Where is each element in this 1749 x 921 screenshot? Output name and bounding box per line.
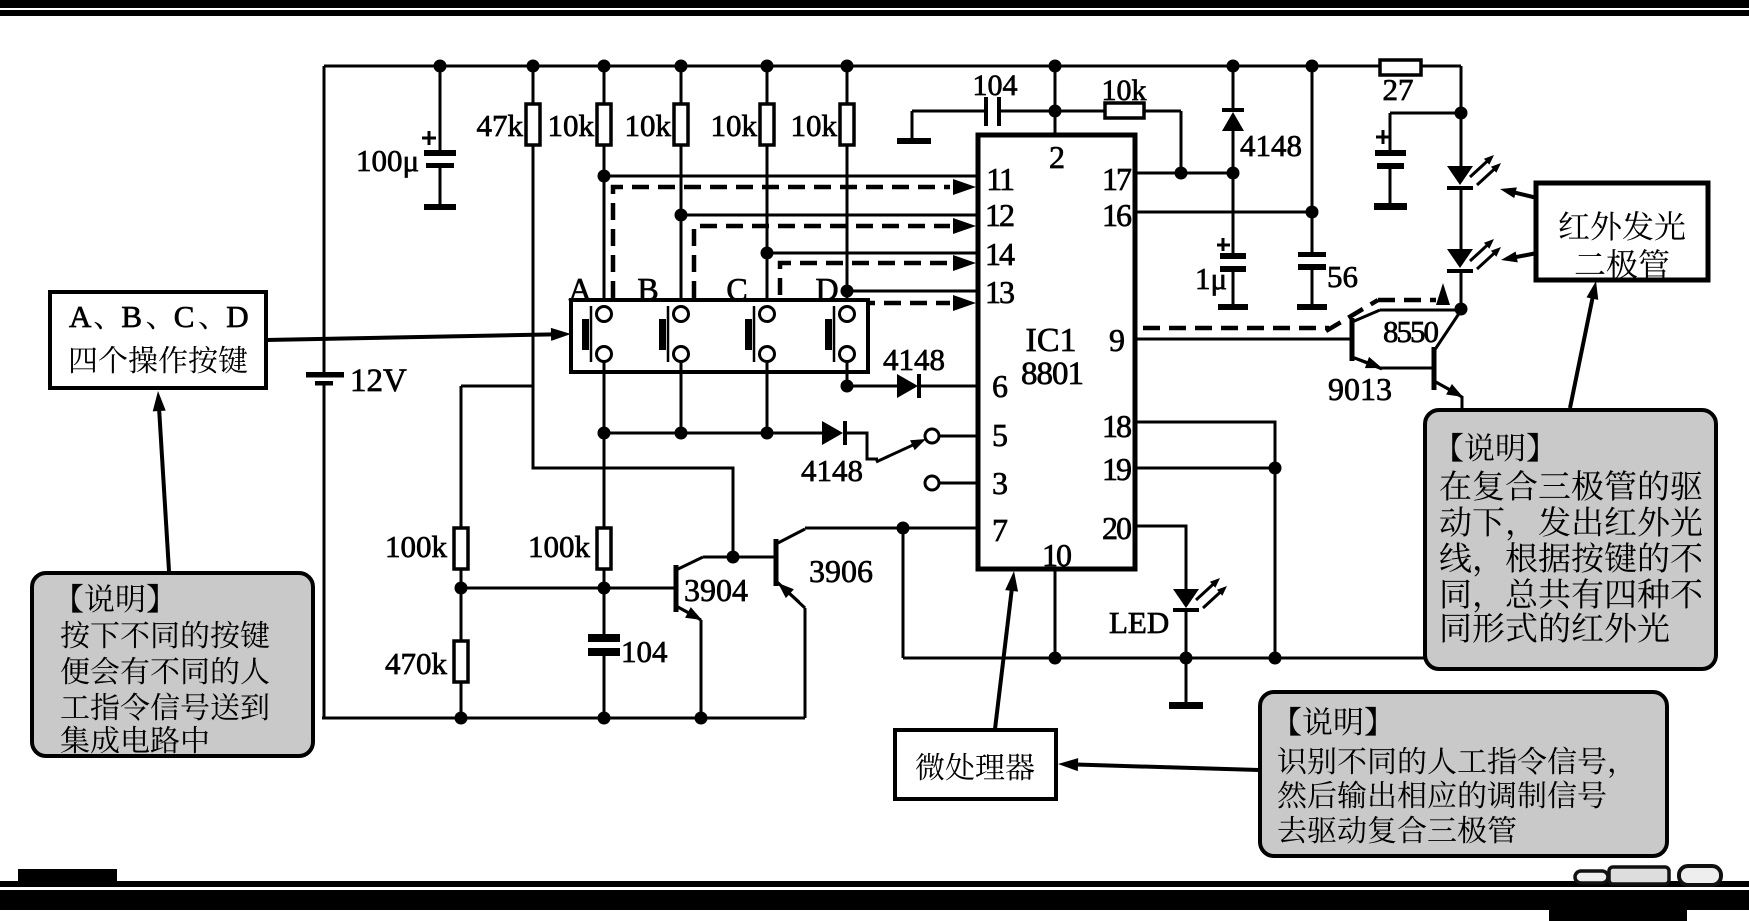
svg-text:27: 27 (1383, 72, 1414, 107)
svg-text:13: 13 (985, 274, 1014, 310)
svg-text:A: A (568, 271, 591, 307)
wire pin 9 to 8550 base (1135, 338, 1350, 341)
wire pin 16 (1135, 211, 1312, 214)
resistor 27 (1380, 60, 1421, 75)
wire left supply rail (323, 66, 326, 373)
dashed signal path B to pin 12 (694, 226, 950, 298)
wire to LED column (1460, 66, 1463, 166)
wire bottom-left ground rail (322, 717, 805, 720)
svg-text:47k: 47k (477, 108, 524, 143)
svg-text:104: 104 (973, 69, 1018, 102)
wire 47k column to 3906 base node (533, 466, 733, 558)
wire button D row to pin 6 (841, 380, 854, 393)
arrow IR box to LED2 (1515, 253, 1537, 257)
wire button B to pin 12 (681, 214, 978, 217)
svg-text:18: 18 (1102, 408, 1131, 444)
IR LED D1 (1447, 166, 1473, 185)
push button block outline (571, 300, 868, 372)
wire 47k branch to 100k column (461, 385, 534, 388)
svg-text:4148: 4148 (801, 453, 863, 488)
wire button C to pin 14 (767, 252, 978, 255)
label box: A B C D buttons (50, 292, 266, 388)
svg-text:3904: 3904 (684, 572, 748, 608)
svg-text:7: 7 (992, 512, 1008, 548)
wire common row to diode 4148b (604, 432, 822, 435)
svg-text:9013: 9013 (1328, 371, 1392, 407)
svg-text:B: B (121, 299, 142, 334)
svg-text:100k: 100k (528, 529, 591, 564)
arrow box to buttons (266, 334, 553, 340)
battery 12V (306, 372, 344, 378)
svg-text:20: 20 (1102, 510, 1131, 546)
resistor 10k (pin 17) (1055, 110, 1105, 113)
switch arm to pin 5 (847, 433, 878, 459)
svg-text:100μ: 100μ (356, 143, 419, 178)
svg-text:10k: 10k (1102, 74, 1147, 107)
svg-text:C: C (174, 299, 195, 334)
top border bar (0, 0, 1749, 8)
arrow left note to box (159, 409, 169, 571)
resistor 10k (D) (846, 66, 849, 104)
wire pin 17 (1135, 172, 1233, 175)
arrow bottom note to MCU (1076, 765, 1259, 770)
svg-text:D: D (815, 271, 838, 307)
svg-text:19: 19 (1102, 451, 1131, 487)
svg-text:2: 2 (1049, 139, 1065, 175)
svg-text:10k: 10k (791, 108, 838, 143)
wire base row (461, 587, 674, 590)
resistor 100k (left) (454, 528, 468, 569)
resistor 10k (A) (603, 66, 606, 104)
svg-text:100k: 100k (385, 529, 448, 564)
wire pin 2 column (1054, 66, 1057, 135)
junction dots on top rail (434, 60, 447, 73)
svg-text:4148: 4148 (883, 342, 945, 377)
svg-text:12V: 12V (350, 363, 407, 399)
svg-text:3906: 3906 (809, 553, 873, 589)
arrow MCU box to IC (995, 589, 1012, 729)
wire button A to pin 11 (604, 175, 978, 178)
svg-text:8801: 8801 (1021, 356, 1083, 392)
svg-text:8550: 8550 (1383, 314, 1439, 349)
svg-text:B: B (637, 271, 658, 307)
transistor Q3 8550 (1350, 318, 1355, 361)
note box (right): compound transistor drive (1425, 410, 1716, 669)
svg-text:10k: 10k (625, 108, 672, 143)
capacitor (electrolytic, top right) (1390, 112, 1461, 115)
svg-text:10: 10 (1042, 537, 1071, 573)
op-amp IC1 8801 body (978, 135, 1135, 569)
transistor Q4 9013 (1432, 347, 1437, 390)
diode 4148 (pin 17 clamp) (1232, 66, 1235, 110)
label box: microprocessor (895, 730, 1056, 799)
ground (104 cap) (911, 111, 914, 139)
IR LED D2 (1447, 249, 1473, 268)
wire top supply rail (324, 65, 1380, 68)
resistor 10k (C) (766, 66, 769, 104)
resistor 47k (532, 66, 535, 104)
wire pin 18 (1135, 422, 1275, 468)
arrow right note to IR box (1570, 297, 1593, 408)
decorative icon pills (1575, 871, 1608, 883)
push button C (760, 307, 775, 322)
switch contact pin 3 (925, 476, 939, 490)
dashed signal path A to pin 11 (613, 187, 950, 298)
push button D (840, 307, 855, 322)
bottom border bars (0, 881, 1749, 887)
svg-text:14: 14 (985, 236, 1015, 272)
capacitor 104 (bottom) (588, 634, 620, 642)
svg-text:104: 104 (621, 634, 668, 669)
wire button D to pin 13 (847, 290, 978, 293)
diode 4148 (pin 5) (822, 421, 843, 445)
svg-text:IC1: IC1 (1026, 322, 1077, 359)
arrow IR box to LED1 (1514, 192, 1537, 198)
wire pin 19 (1135, 467, 1275, 470)
transistor Q2 3906 (774, 539, 779, 586)
capacitor 1u (1220, 253, 1246, 259)
dashed modulation path pin 9 (1143, 326, 1329, 331)
push button B (674, 307, 689, 322)
dashed signal path D to pin 13 (858, 301, 950, 306)
wire pin 10 (1054, 569, 1057, 658)
svg-text:16: 16 (1102, 197, 1132, 233)
diode 4148 (pin 6) (897, 374, 918, 398)
push button A (597, 307, 612, 322)
dashed signal path C to pin 14 (780, 263, 950, 295)
svg-text:6: 6 (992, 368, 1008, 404)
note box (bottom): signal recognition (1260, 692, 1667, 856)
svg-text:3: 3 (992, 465, 1008, 501)
svg-text:1μ: 1μ (1195, 261, 1227, 296)
note box (left): button explanation (32, 573, 313, 756)
wire pin 7 / bottom rail (805, 527, 978, 530)
svg-text:C: C (726, 271, 747, 307)
resistor 10k (B) (680, 66, 683, 104)
svg-text:470k: 470k (385, 646, 448, 681)
svg-text:LED: LED (1109, 605, 1169, 640)
svg-text:A: A (69, 299, 92, 334)
svg-text:17: 17 (1102, 161, 1132, 197)
svg-text:11: 11 (986, 161, 1014, 197)
svg-text:D: D (226, 299, 248, 334)
svg-text:12: 12 (985, 197, 1014, 233)
resistor 470k (454, 641, 468, 682)
svg-text:10k: 10k (711, 108, 758, 143)
capacitor 100u (439, 66, 442, 151)
capacitor 56 (1311, 66, 1314, 252)
svg-text:9: 9 (1109, 322, 1125, 358)
ground (LED) (1169, 702, 1203, 709)
svg-text:56: 56 (1327, 259, 1358, 294)
switch contact pin 5 (925, 429, 939, 443)
svg-text:5: 5 (992, 417, 1008, 453)
svg-text:4148: 4148 (1240, 128, 1302, 163)
resistor 100k (mid) (597, 528, 611, 569)
svg-text:10k: 10k (548, 108, 595, 143)
transistor Q1 3904 (674, 565, 679, 612)
capacitor 104 (top) (912, 110, 986, 113)
wire button columns below block (603, 362, 606, 528)
wire pin 20 to LED (1135, 526, 1186, 589)
LED indicator (1173, 589, 1199, 608)
label box: IR emitting diodes (1536, 183, 1708, 280)
